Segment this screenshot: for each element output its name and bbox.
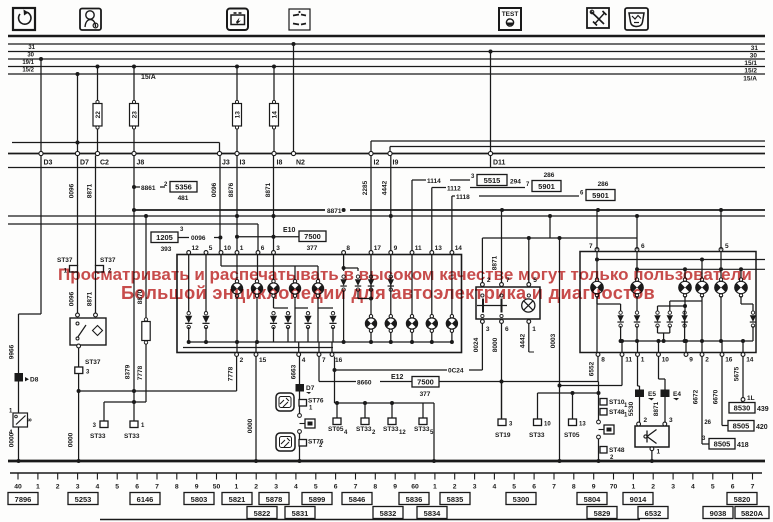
connector E5 (black) bbox=[635, 390, 644, 398]
svg-text:1: 1 bbox=[657, 449, 661, 456]
svg-text:6552: 6552 bbox=[589, 361, 596, 376]
wire RD4 top feed bbox=[669, 301, 671, 311]
junction D7/bus15A bbox=[76, 72, 80, 76]
svg-text:0000: 0000 bbox=[9, 432, 16, 447]
junction pin5/busB bbox=[719, 267, 723, 271]
svg-text:6: 6 bbox=[641, 243, 645, 250]
node line391 start bbox=[77, 389, 81, 393]
K box pin 1 bbox=[650, 447, 661, 456]
svg-text:7: 7 bbox=[526, 182, 530, 188]
right box top pin 5 bbox=[719, 243, 729, 251]
wire L5 down bbox=[317, 298, 319, 309]
svg-text:70: 70 bbox=[610, 484, 618, 491]
terminal C2 bbox=[95, 151, 109, 166]
svg-text:2: 2 bbox=[705, 357, 709, 364]
bus 15/2 bbox=[8, 66, 765, 68]
wire 1L into 8530 bbox=[741, 401, 743, 403]
svg-text:30: 30 bbox=[27, 53, 34, 59]
svg-text:5836: 5836 bbox=[406, 495, 423, 504]
cluster diode D-g bbox=[340, 275, 346, 291]
svg-text:1: 1 bbox=[9, 409, 13, 415]
svg-text:ST37: ST37 bbox=[100, 257, 116, 264]
svg-text:16: 16 bbox=[335, 357, 343, 364]
relay diamond symbol bbox=[93, 326, 103, 336]
right box lamp R6 bbox=[734, 278, 747, 297]
junction RD2/railC bbox=[635, 339, 639, 343]
track ref box 5899 bbox=[302, 493, 332, 505]
wire ST33-3 riser bbox=[103, 402, 105, 421]
svg-text:J8: J8 bbox=[137, 160, 145, 167]
svg-text:2: 2 bbox=[372, 430, 376, 436]
connector E4 (black) bbox=[661, 390, 670, 398]
track ref box 5832 bbox=[373, 507, 403, 519]
relay contact symbol bbox=[76, 322, 86, 340]
wire D7 down bbox=[77, 156, 79, 267]
wire D-f tail bbox=[332, 327, 334, 342]
wire R1 tail bbox=[596, 296, 598, 304]
svg-text:15/A: 15/A bbox=[743, 76, 757, 83]
svg-text:6: 6 bbox=[731, 484, 735, 491]
speedometer sender K box bbox=[635, 426, 669, 447]
svg-text:ST48: ST48 bbox=[609, 409, 625, 416]
wire fuse 14 to I8 bbox=[273, 129, 275, 152]
svg-text:19/1: 19/1 bbox=[22, 60, 34, 66]
junction rightbox pin5 wire / bus 8871 bbox=[719, 208, 723, 212]
relay J6 internal contacts bbox=[481, 294, 484, 297]
wire R5 down bbox=[720, 296, 722, 341]
svg-text:5832: 5832 bbox=[380, 509, 397, 518]
svg-text:26: 26 bbox=[704, 420, 711, 426]
bus 30 bbox=[8, 51, 765, 53]
svg-text:5878: 5878 bbox=[266, 495, 283, 504]
svg-text:8: 8 bbox=[175, 484, 179, 491]
svg-text:9: 9 bbox=[592, 484, 596, 491]
wire link y391 bbox=[79, 390, 237, 392]
junction fuse14/bus bbox=[272, 65, 276, 69]
wire ST row right drop bbox=[433, 403, 435, 461]
wire E10 from I3 wire bbox=[237, 236, 299, 238]
svg-text:7778: 7778 bbox=[228, 366, 235, 381]
wire branch down to J3 bbox=[219, 143, 221, 152]
fuse 14 bbox=[270, 100, 279, 129]
svg-text:5822: 5822 bbox=[254, 509, 271, 518]
svg-text:ST33: ST33 bbox=[356, 426, 372, 433]
junction ST33-2/row bbox=[363, 401, 367, 405]
svg-text:2: 2 bbox=[56, 484, 60, 491]
wire I2 riser bbox=[370, 141, 372, 152]
K box pin 2 bbox=[637, 417, 648, 426]
svg-text:1: 1 bbox=[235, 484, 239, 491]
wire ST33-1 riser bbox=[133, 402, 135, 421]
svg-text:3: 3 bbox=[274, 484, 278, 491]
bus 2 horizontal bbox=[8, 215, 765, 217]
wire D11 down bbox=[490, 156, 492, 168]
terminal J3 bbox=[217, 151, 229, 166]
wire pin6 riser from line3 bbox=[257, 224, 259, 253]
wire D7 to relay bbox=[77, 273, 79, 316]
svg-text:8876: 8876 bbox=[228, 182, 235, 197]
terminal 1L bbox=[741, 398, 745, 402]
connector icon ST76-2 bbox=[276, 433, 295, 451]
svg-text:3: 3 bbox=[180, 227, 184, 233]
cluster top pin 6 bbox=[256, 245, 265, 254]
svg-text:4: 4 bbox=[493, 484, 497, 491]
junction bus2 / line238 riser bbox=[548, 214, 552, 218]
track ref box 6532 bbox=[638, 507, 668, 519]
wire pin16 drop bbox=[334, 357, 336, 404]
svg-text:0096: 0096 bbox=[69, 183, 76, 198]
wire pin10 down bbox=[658, 357, 660, 380]
track ref box 5834 bbox=[417, 507, 447, 519]
terminal strip upper rail bbox=[8, 153, 765, 155]
wire railC to pin9 bbox=[685, 341, 687, 353]
right diode RD2 bbox=[634, 311, 640, 327]
node E10 / I3 wire bbox=[235, 235, 239, 239]
cluster diode D-f bbox=[329, 312, 336, 329]
svg-text:6: 6 bbox=[580, 191, 584, 197]
connector ST33 pin5 bbox=[414, 418, 434, 436]
relay J6 lamp symbol bbox=[522, 299, 535, 312]
svg-text:8660: 8660 bbox=[357, 380, 372, 387]
svg-text:2: 2 bbox=[651, 484, 655, 491]
wire pin5 into box bbox=[205, 255, 207, 313]
wire railC to pin11 bbox=[621, 341, 623, 353]
wire diode b to bottom rail bbox=[205, 327, 207, 342]
svg-text:8530: 8530 bbox=[734, 404, 751, 413]
svg-text:3: 3 bbox=[509, 422, 513, 428]
wire RD1 tail bbox=[620, 326, 622, 341]
watermark line 2 bbox=[121, 283, 655, 304]
svg-text:5300: 5300 bbox=[513, 495, 530, 504]
ref box 8505 (420) bbox=[728, 421, 754, 432]
svg-text:7: 7 bbox=[155, 484, 159, 491]
junction R4/railC bbox=[700, 339, 704, 343]
connector D8 (black) bbox=[15, 373, 24, 382]
relay J6 box bbox=[476, 287, 540, 319]
junction L2/bottom rail bbox=[255, 340, 259, 344]
junction switch/ground bbox=[17, 459, 21, 463]
wire ST column lower bbox=[598, 439, 600, 461]
icon spanner/tools symbol bbox=[587, 8, 609, 28]
ref box 5901a bbox=[532, 181, 561, 192]
relay J6 top pin 2 bbox=[481, 277, 491, 286]
resistor (ballast) symbol bbox=[142, 318, 150, 344]
connector ST48 pin2 bbox=[600, 447, 625, 462]
connector ST48 pin1 bbox=[600, 409, 628, 419]
wire I3 down to pin1 bbox=[236, 156, 238, 253]
svg-text:D8: D8 bbox=[30, 377, 39, 384]
cluster top pin 17 bbox=[369, 245, 381, 254]
wire pin12 into box bbox=[188, 255, 190, 313]
K box pin 3 bbox=[663, 417, 673, 426]
wire diode a to bottom rail bbox=[188, 327, 190, 342]
junction I9 wire / bus2 bbox=[389, 214, 393, 218]
svg-text:14: 14 bbox=[271, 111, 278, 119]
wire bus2 to resistor bbox=[145, 216, 147, 318]
svg-text:2285: 2285 bbox=[362, 180, 369, 195]
relay pin top-right bbox=[94, 313, 98, 317]
svg-text:1205: 1205 bbox=[156, 233, 173, 242]
svg-text:60: 60 bbox=[411, 484, 419, 491]
wire D-f to pin16 column bbox=[331, 342, 333, 353]
svg-text:13: 13 bbox=[234, 111, 241, 119]
junction ST33-1 / link bbox=[132, 400, 136, 404]
junction 8379/line391 bbox=[132, 389, 136, 393]
icon seat-belt warning symbol bbox=[80, 9, 101, 31]
connector ST19 pin3 bbox=[495, 419, 513, 439]
wire fuse 13 to I3 bbox=[236, 129, 238, 152]
svg-text:5901: 5901 bbox=[538, 182, 555, 191]
wire pin2 down (7778) bbox=[236, 357, 238, 392]
svg-text:1: 1 bbox=[240, 245, 244, 252]
wire L4 down bbox=[294, 298, 296, 309]
svg-text:5530: 5530 bbox=[628, 401, 635, 416]
wire ST19 drop bbox=[501, 382, 503, 420]
cluster bottom pin 2 bbox=[235, 353, 244, 364]
wire corner to 9966 column bbox=[19, 313, 42, 315]
fuse 23 bbox=[130, 100, 139, 129]
wire 15A branch horizontal to J3 bbox=[12, 142, 220, 144]
cluster top pin 11 bbox=[410, 245, 422, 254]
svg-text:2: 2 bbox=[644, 417, 648, 424]
junction RD1/railC bbox=[619, 339, 623, 343]
fuse 22 bbox=[93, 100, 102, 129]
label D8 bbox=[25, 377, 29, 381]
svg-text:TEST: TEST bbox=[502, 11, 519, 18]
cluster warning lamp L1 bbox=[231, 280, 243, 298]
wire ST33-10 riser bbox=[537, 393, 539, 419]
svg-text:5515: 5515 bbox=[484, 176, 501, 185]
svg-text:3: 3 bbox=[671, 484, 675, 491]
svg-text:31: 31 bbox=[28, 45, 35, 51]
junction pin6/busB bbox=[635, 267, 639, 271]
svg-text:15: 15 bbox=[259, 357, 267, 364]
svg-text:420: 420 bbox=[756, 424, 768, 431]
svg-text:418: 418 bbox=[737, 442, 749, 449]
terminal D11 bbox=[488, 151, 505, 166]
svg-text:E12: E12 bbox=[391, 374, 404, 381]
track ref box 5300 bbox=[506, 493, 536, 505]
wire pin14 down (5675) bbox=[742, 357, 744, 398]
junction pin15/ground bbox=[254, 459, 258, 463]
wire RD6 tail bbox=[752, 326, 754, 341]
svg-text:6532: 6532 bbox=[645, 509, 662, 518]
junction D3/bus15-1 bbox=[39, 57, 43, 61]
track ref box 5835 bbox=[440, 493, 470, 505]
svg-text:1112: 1112 bbox=[447, 186, 461, 193]
junction railC/pin14 bbox=[741, 339, 745, 343]
right diode RD4 bbox=[667, 311, 673, 327]
wire L3 down bbox=[273, 298, 275, 309]
terminal D7 bbox=[75, 151, 89, 166]
svg-text:40: 40 bbox=[14, 484, 22, 491]
svg-text:6: 6 bbox=[135, 484, 139, 491]
svg-text:6663: 6663 bbox=[291, 364, 298, 379]
wire 8660 line left bbox=[319, 381, 356, 383]
svg-text:8379: 8379 bbox=[125, 364, 132, 379]
wire pin6 into box bbox=[636, 252, 638, 281]
svg-text:D11: D11 bbox=[493, 160, 506, 167]
junction pin7/busA bbox=[595, 258, 599, 262]
svg-text:7: 7 bbox=[354, 484, 358, 491]
junction 0003/ground bbox=[558, 459, 562, 463]
wire I9 down to pin9 bbox=[390, 156, 392, 253]
right box top pin 7 bbox=[589, 243, 599, 251]
svg-text:E4: E4 bbox=[673, 391, 681, 398]
svg-text:I9: I9 bbox=[393, 160, 399, 167]
wire J3 down to pin10 bbox=[219, 156, 221, 253]
wire ST76 pair lower bbox=[299, 434, 301, 462]
svg-text:14: 14 bbox=[455, 245, 463, 252]
wire branch diodes mid bbox=[274, 307, 289, 309]
junction fuse13/bus bbox=[235, 65, 239, 69]
junction bus1 left end / J8-8379 wire bbox=[132, 208, 136, 212]
wire 1118 horizontal bbox=[452, 195, 455, 197]
svg-text:3: 3 bbox=[93, 423, 97, 429]
svg-text:5846: 5846 bbox=[349, 495, 366, 504]
wire pin to lamp L8 bbox=[411, 255, 413, 316]
connector ST37 pin3 bbox=[75, 359, 101, 376]
track ref box 5829 bbox=[587, 507, 617, 519]
cluster warning lamp L8 bbox=[406, 315, 418, 333]
junction bridge/railC bbox=[662, 339, 666, 343]
rightbox bus B bbox=[637, 268, 765, 270]
svg-text:5: 5 bbox=[711, 484, 715, 491]
wire railC bbox=[621, 340, 753, 342]
svg-text:8000: 8000 bbox=[492, 337, 499, 352]
svg-text:50: 50 bbox=[213, 484, 221, 491]
svg-text:5831: 5831 bbox=[292, 509, 309, 518]
junction N2/bus31 bbox=[292, 42, 296, 46]
right box bottom pin 14 bbox=[741, 353, 754, 364]
cluster diode D-h bbox=[355, 275, 361, 291]
svg-text:7896: 7896 bbox=[15, 495, 32, 504]
icon turn-signal symbol bbox=[13, 8, 35, 30]
junction railC/pin9 bbox=[684, 339, 688, 343]
svg-text:4442: 4442 bbox=[520, 333, 527, 348]
wire relay pin7 riser from bus bbox=[501, 210, 503, 285]
svg-text:2: 2 bbox=[453, 484, 457, 491]
svg-text:ST05: ST05 bbox=[328, 426, 344, 433]
scale numbers bbox=[14, 484, 754, 491]
wire L6 to bottom rail bbox=[370, 333, 372, 343]
cluster bottom pin 16 bbox=[330, 353, 343, 364]
cluster warning lamp L5 bbox=[312, 280, 324, 298]
svg-text:2: 2 bbox=[240, 357, 244, 364]
wire L2 to pin15 column bbox=[256, 298, 258, 343]
wire ST column vertical bbox=[598, 382, 600, 421]
svg-text:4: 4 bbox=[96, 484, 100, 491]
cluster warning lamp L3 bbox=[268, 280, 280, 298]
svg-text:I3: I3 bbox=[240, 160, 246, 167]
wire branch L5-diode bbox=[318, 307, 333, 309]
svg-text:1: 1 bbox=[532, 326, 536, 333]
junction STcolumn/ground bbox=[597, 459, 601, 463]
wire L4 to pin4 column bbox=[294, 308, 296, 342]
terminal I8 bbox=[272, 151, 283, 166]
fuse 13 bbox=[233, 100, 242, 129]
wire ST05-13 riser bbox=[572, 393, 574, 419]
scale tick marks bbox=[18, 473, 753, 480]
terminal I3 bbox=[235, 151, 246, 166]
wire bus31 to N2 bbox=[293, 44, 295, 152]
wire C2 down bbox=[95, 156, 97, 267]
right box lamp R5 bbox=[714, 278, 727, 297]
wire RD3-RD4 bridge bbox=[657, 326, 659, 333]
relay pin top-left bbox=[76, 313, 80, 317]
wire railC to pin14 bbox=[742, 341, 744, 353]
wire pin3 to lamp L3 bbox=[273, 255, 275, 280]
wire 1112 horizontal bbox=[432, 187, 446, 189]
wire K pin1 to ground bbox=[651, 451, 653, 462]
svg-text:3: 3 bbox=[473, 484, 477, 491]
wire relay pin5 riser bbox=[528, 238, 530, 285]
wire ST33-12 riser bbox=[391, 403, 393, 418]
svg-text:9: 9 bbox=[393, 484, 397, 491]
wire ST05-4 riser bbox=[336, 403, 338, 418]
svg-text:5899: 5899 bbox=[309, 495, 326, 504]
svg-text:8871: 8871 bbox=[265, 182, 272, 197]
wire line 238 bbox=[482, 237, 637, 239]
cluster diode D-e bbox=[304, 312, 311, 329]
svg-text:23: 23 bbox=[131, 111, 138, 119]
svg-text:C2: C2 bbox=[100, 160, 109, 167]
svg-text:1: 1 bbox=[641, 357, 645, 364]
svg-text:286: 286 bbox=[598, 181, 609, 188]
relay J6 coil symbol bbox=[477, 299, 507, 313]
junction ST76/ground bbox=[298, 459, 302, 463]
junction rightbox pin7 wire / bus 8871 bbox=[596, 208, 600, 212]
svg-text:0C24: 0C24 bbox=[448, 368, 464, 375]
right diode RD5 bbox=[681, 311, 687, 327]
cluster diode D-j on pin9 wire bbox=[388, 275, 394, 291]
junction ST33-12/row bbox=[390, 401, 394, 405]
junction D-g/bottom rail bbox=[342, 340, 346, 344]
watermark line 1 bbox=[58, 265, 752, 285]
wire interior feed line bbox=[221, 265, 318, 267]
wire I2 horizontal run bbox=[371, 140, 765, 142]
svg-text:ST10: ST10 bbox=[609, 399, 625, 406]
cluster top pin 13 bbox=[430, 245, 442, 254]
wire pin1 down bbox=[637, 357, 639, 387]
svg-text:10: 10 bbox=[544, 422, 551, 428]
junction L9/bottom rail bbox=[430, 340, 434, 344]
wire branch L4-diode bbox=[295, 307, 308, 309]
right diode RD3 bbox=[654, 311, 660, 327]
track ref box 5846 bbox=[342, 493, 372, 505]
junction L8/bottom rail bbox=[410, 340, 414, 344]
svg-text:ST76: ST76 bbox=[308, 398, 324, 405]
wire L9 to bottom rail bbox=[431, 333, 433, 343]
bottom edge line bbox=[100, 519, 640, 521]
cluster diode D-i on pin17 wire bbox=[368, 275, 374, 291]
wire pin10 into box bbox=[220, 255, 222, 267]
svg-text:1: 1 bbox=[141, 423, 145, 429]
wire ST row line bbox=[335, 402, 435, 404]
svg-text:8505: 8505 bbox=[714, 440, 731, 449]
inline connector pair ST column bbox=[597, 420, 614, 439]
relay J6 bottom pin 3 bbox=[481, 320, 490, 333]
junction pin6/bus2 bbox=[635, 214, 639, 218]
svg-text:4: 4 bbox=[302, 357, 306, 364]
connector ST33 pin3 bbox=[90, 421, 108, 440]
svg-text:9: 9 bbox=[689, 357, 693, 364]
wire pin4 down (6663) bbox=[299, 357, 301, 385]
wire rightbox pin5 riser bbox=[720, 211, 722, 250]
svg-text:31: 31 bbox=[751, 45, 759, 52]
instrument cluster box E1 bbox=[177, 255, 462, 353]
svg-text:0096: 0096 bbox=[211, 182, 218, 197]
